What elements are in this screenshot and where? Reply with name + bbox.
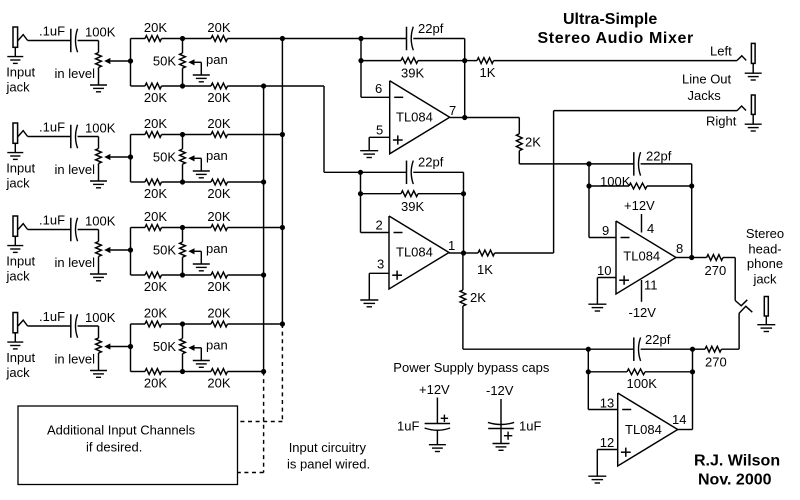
wire ch3 bottom to right bus [228, 274, 264, 276]
svg-text:2: 2 [376, 217, 383, 232]
svg-text:50K: 50K [153, 243, 176, 258]
stereo headphone jack [764, 297, 768, 325]
svg-text:270: 270 [705, 263, 727, 278]
wire C1 to level pot [78, 41, 99, 53]
feedback right vertical (U1d) [690, 347, 695, 430]
resistor 20K bottom-left (ch4) [145, 369, 162, 375]
label "20K" bottom-left (ch3) [144, 279, 167, 294]
right mix bus (vertical) [261, 83, 266, 374]
label ".1uF" (C1) [39, 24, 65, 39]
Right line-out jack [737, 95, 755, 124]
svg-text:1uF: 1uF [397, 419, 419, 434]
feedback wire 39K row (U1b) [361, 193, 464, 195]
svg-text:12: 12 [600, 435, 614, 450]
U1c input node vertical [586, 161, 591, 237]
pin 13 label (U1d) [600, 395, 614, 410]
ground (Left jack) [745, 73, 762, 80]
wire U1d inverting input [588, 409, 617, 411]
svg-text:Left: Left [710, 43, 732, 58]
wire ch2 bottom to right bus [228, 181, 264, 183]
wire pan wiper to ground (ch2) [195, 158, 202, 171]
svg-text:9: 9 [602, 223, 609, 238]
label "in level" (ch2) [55, 162, 96, 177]
svg-text:.1uF: .1uF [39, 213, 65, 228]
label "1uF" (-12V bypass) [519, 419, 541, 434]
ground (U1b pin 3) [360, 300, 378, 307]
pin 10 label (U1c) [597, 263, 611, 278]
resistor 270 (headphone left) [692, 255, 723, 261]
svg-text:Right: Right [706, 114, 737, 129]
svg-text:50K: 50K [153, 150, 176, 165]
wire 20K to pan top (ch3) [162, 225, 212, 230]
svg-text:20K: 20K [207, 116, 230, 131]
svg-text:20K: 20K [144, 306, 167, 321]
label "1K" (left out) [480, 65, 496, 80]
ground (in-level pot ch3) [90, 274, 107, 281]
potentiometer 100K in-level (ch3) [96, 242, 111, 257]
svg-text:22pf: 22pf [418, 21, 444, 36]
svg-text:jack: jack [752, 272, 777, 287]
svg-text:100K: 100K [85, 121, 116, 136]
svg-text:phone: phone [747, 256, 783, 271]
label "pan" (ch4) [206, 338, 228, 353]
potentiometer 100K in-level (ch1) [96, 53, 111, 68]
svg-text:jack: jack [6, 269, 31, 284]
label "Input circuitry is panel wired." [287, 440, 370, 471]
wire bottom row left (ch4) [131, 371, 146, 373]
label "50K" (ch2) [153, 150, 176, 165]
wire pot bottom to ground (ch2) [98, 164, 100, 182]
label "22pf" (U1d) [645, 332, 671, 347]
wire U1c output [676, 257, 692, 259]
svg-text:20K: 20K [207, 279, 230, 294]
resistor 20K top-left (ch4) [145, 321, 162, 327]
ground (input jack J4) [7, 342, 23, 349]
svg-text:Input circuitry: Input circuitry [289, 440, 367, 455]
wire 2K to U1c input [519, 151, 589, 164]
svg-text:5: 5 [376, 123, 383, 138]
svg-text:TL084: TL084 [396, 109, 433, 124]
feedback right vertical (U1c) [689, 164, 694, 260]
wire C5 to ground [436, 431, 438, 445]
svg-text:Line Out: Line Out [682, 72, 732, 87]
resistor 20K top-left (ch2) [145, 132, 162, 138]
svg-text:if desired.: if desired. [86, 440, 142, 455]
svg-text:20K: 20K [144, 186, 167, 201]
label "20K" bottom-right (ch3) [207, 279, 230, 294]
label "20K" top-right (ch2) [207, 116, 230, 131]
label "20K" top-left (ch1) [144, 20, 167, 35]
resistor 20K bottom-left (ch1) [145, 83, 162, 89]
resistor 100K (U1c feedback) [629, 183, 647, 189]
label "TL084" (U1c) [623, 248, 660, 263]
svg-text:13: 13 [600, 395, 614, 410]
svg-text:1K: 1K [480, 65, 496, 80]
wire ch4 top to left bus [228, 323, 283, 325]
wire 270 to headphone ring [721, 313, 739, 349]
svg-text:.1uF: .1uF [39, 120, 65, 135]
pin 4 label (U1c) [647, 221, 654, 236]
label "100K" (ch1) [85, 25, 116, 40]
wire U1b ground pin 3 [369, 273, 389, 300]
label "100K" (ch2) [85, 121, 116, 136]
wire U1b output to 2K [462, 253, 464, 290]
label "20K" top-left (ch4) [144, 306, 167, 321]
wire wiper to node (ch1) [110, 60, 130, 62]
input jack J2 [13, 123, 28, 153]
svg-text:Input: Input [6, 350, 35, 365]
label Input jack J4 [6, 350, 36, 380]
wire bottom row left (ch3) [131, 274, 146, 276]
additional channels box [18, 406, 238, 485]
wire pan wiper to ground (ch3) [195, 251, 202, 264]
left mix bus (vertical) [280, 36, 285, 327]
input jack J4 [13, 313, 28, 343]
wire top row left (ch2) [131, 134, 146, 136]
label "TL084" (U1d) [625, 422, 662, 437]
svg-text:-12V: -12V [629, 305, 657, 320]
ground (pan pot ch4) [193, 361, 210, 368]
label "20K" top-left (ch3) [144, 209, 167, 224]
svg-text:R.J. Wilson: R.J. Wilson [694, 453, 780, 470]
headphone tip contact [735, 300, 747, 306]
resistor 20K top-left (ch1) [145, 36, 162, 42]
svg-text:Input: Input [6, 254, 35, 269]
label "in level" (ch3) [55, 255, 96, 270]
label "1K" (right out) [477, 262, 493, 277]
U1b input node vertical [358, 170, 363, 233]
wire wiper to node (ch3) [110, 249, 130, 251]
op-amp U1c TL084 (pins 9,10,8) [616, 221, 676, 294]
label "+12V" (U1c pin 4) [624, 198, 655, 213]
svg-text:20K: 20K [207, 376, 230, 391]
svg-text:Input: Input [6, 65, 35, 80]
node split vertical (ch1) [128, 39, 133, 87]
wire top row left (ch1) [131, 38, 146, 40]
svg-text:20K: 20K [144, 376, 167, 391]
label "Right" [706, 114, 737, 129]
svg-text:270: 270 [705, 355, 727, 370]
svg-text:10: 10 [597, 263, 611, 278]
label "Power Supply bypass caps" [393, 360, 550, 375]
ground (U1a pin 5) [360, 151, 378, 158]
author credit [694, 453, 780, 489]
resistor 20K top-left (ch3) [145, 225, 162, 231]
wire U1d ground pin 12 [597, 450, 617, 477]
node split vertical (ch2) [128, 135, 133, 183]
resistor 1K (left out) [465, 58, 494, 64]
label Input jack J1 [6, 65, 36, 95]
svg-text:100K: 100K [627, 376, 658, 391]
label "20K" bottom-right (ch2) [207, 186, 230, 201]
label "50K" (ch1) [153, 54, 176, 69]
label "270" (headphone left) [705, 263, 727, 278]
svg-text:-12V: -12V [486, 383, 514, 398]
wire J3 to C3 [28, 229, 71, 231]
label "Left" [710, 43, 732, 58]
svg-text:4: 4 [647, 221, 654, 236]
wire C3 to level pot [78, 230, 99, 242]
svg-text:20K: 20K [207, 186, 230, 201]
resistor R 39K (U1a feedback) [401, 58, 418, 64]
label ".1uF" (C4) [39, 309, 65, 324]
label "2K" (U1a output) [525, 135, 541, 150]
svg-text:20K: 20K [207, 90, 230, 105]
wire U1a inverting input [361, 96, 390, 98]
wire J1 to C1 [28, 40, 71, 42]
svg-text:Ultra-Simple: Ultra-Simple [563, 11, 657, 28]
svg-text:2K: 2K [470, 290, 486, 305]
resistor 20K top-right (ch2) [211, 132, 228, 138]
ground (headphone jack) [757, 325, 775, 332]
wire 20K to pan bottom (ch1) [162, 83, 212, 88]
wire pan wiper to ground (ch1) [195, 62, 202, 75]
pan pot 50K (ch4) [180, 324, 195, 372]
svg-text:8: 8 [676, 241, 683, 256]
pan pot 50K (ch1) [180, 39, 195, 87]
wire 20K to pan bottom (ch4) [162, 369, 212, 374]
capacitor C2 .1uF [71, 125, 78, 149]
resistor 20K top-right (ch4) [211, 321, 228, 327]
resistor 20K bottom-right (ch2) [211, 179, 228, 185]
input jack J3 [13, 216, 28, 246]
label "+12V" (bypass) [419, 382, 450, 397]
wire pot bottom to ground (ch3) [98, 257, 100, 275]
svg-text:in level: in level [55, 66, 96, 81]
wire U1c ground pin 10 [597, 278, 616, 305]
feedback wire 22pf row (U1c) [589, 163, 692, 165]
input jack J1 [13, 27, 28, 57]
svg-text:jack: jack [6, 80, 31, 95]
svg-text:pan: pan [206, 338, 228, 353]
svg-text:50K: 50K [153, 339, 176, 354]
Left line-out jack [737, 43, 755, 73]
ground (pan pot ch1) [193, 75, 210, 82]
label "22pf" (U1c) [646, 148, 672, 163]
svg-text:6: 6 [375, 81, 382, 96]
dashed expansion wire from left bus [238, 324, 283, 422]
svg-text:20K: 20K [207, 20, 230, 35]
pan pot 50K (ch3) [180, 228, 195, 276]
capacitor C5 1uF (+12V bypass) [425, 415, 451, 431]
pin 5 label (U1a) [376, 123, 383, 138]
svg-text:Stereo Audio Mixer: Stereo Audio Mixer [538, 30, 694, 47]
wire ch3 top to left bus [228, 227, 283, 229]
resistor 1K (right out) [464, 250, 495, 256]
ground (input jack J2) [7, 153, 23, 160]
wire U1d output [678, 429, 693, 431]
svg-text:TL084: TL084 [396, 245, 433, 260]
wire J4 to C4 [28, 325, 71, 327]
label "20K" bottom-left (ch2) [144, 186, 167, 201]
label "50K" (ch3) [153, 243, 176, 258]
svg-text:Jacks: Jacks [688, 88, 722, 103]
svg-text:Additional Input Channels: Additional Input Channels [47, 422, 196, 437]
label "20K" bottom-left (ch1) [144, 90, 167, 105]
wire U1a output to 2K [465, 118, 520, 134]
label "22pf" (U1a) [418, 21, 444, 36]
ground (U1c pin 10) [588, 304, 606, 311]
ground (in-level pot ch2) [90, 181, 107, 188]
label "2K" (U1b output) [470, 290, 486, 305]
label "pan" (ch3) [206, 241, 228, 256]
wire 20K to pan bottom (ch2) [162, 179, 212, 184]
feedback right vertical (U1b) [461, 172, 466, 255]
label "20K" bottom-right (ch4) [207, 376, 230, 391]
svg-text:+12V: +12V [624, 198, 655, 213]
pin 6 label (U1a) [375, 81, 382, 96]
wire ch1 bottom row to right-bus corner [228, 85, 325, 87]
label "in level" (ch4) [55, 352, 96, 367]
svg-text:14: 14 [672, 412, 686, 427]
resistor 20K bottom-left (ch3) [145, 272, 162, 278]
feedback wire 100K row (U1d) [588, 371, 692, 373]
label "TL084" (U1a) [396, 109, 433, 124]
svg-text:20K: 20K [144, 279, 167, 294]
feedback wire 39K row (U1a) [361, 60, 465, 62]
svg-text:Power Supply bypass caps: Power Supply bypass caps [393, 360, 550, 375]
svg-text:TL084: TL084 [623, 248, 660, 263]
wire J2 to C2 [28, 136, 71, 138]
wire pot bottom to ground (ch4) [98, 353, 100, 371]
op-amp U1a TL084 (pins 6,5,7) [390, 81, 450, 154]
pin 3 label (U1b) [377, 257, 384, 272]
label "1uF" (+12V bypass) [397, 419, 419, 434]
label Input jack J2 [6, 161, 36, 191]
svg-text:22pf: 22pf [646, 148, 672, 163]
resistor 20K bottom-right (ch1) [211, 83, 228, 89]
capacitor 22pf (U1c feedback) [634, 152, 641, 176]
svg-text:head-: head- [748, 241, 781, 256]
wire to Right line-out jack [495, 111, 737, 253]
svg-text:TL084: TL084 [625, 422, 662, 437]
wire 20K to pan bottom (ch3) [162, 272, 212, 277]
wire -12V to C6 [500, 399, 502, 429]
label "100K" (ch4) [85, 310, 116, 325]
ground (Right jack) [745, 124, 762, 131]
wire to Left line-out jack [494, 60, 737, 62]
U1a input node vertical [358, 36, 363, 97]
svg-text:Nov. 2000: Nov. 2000 [698, 472, 772, 489]
pin 9 label (U1c) [602, 223, 609, 238]
wire pin 11 to -12V (U1c) [641, 280, 643, 302]
svg-text:100K: 100K [85, 25, 116, 40]
svg-text:11: 11 [644, 278, 658, 293]
label ".1uF" (C2) [39, 120, 65, 135]
wire wiper to node (ch2) [110, 156, 130, 158]
node split vertical (ch4) [128, 324, 133, 372]
feedback wire 100K row (U1c) [589, 185, 692, 187]
resistor 20K top-right (ch3) [211, 225, 228, 231]
wire pot bottom to ground (ch1) [98, 68, 100, 86]
svg-text:22pf: 22pf [645, 332, 671, 347]
potentiometer 100K in-level (ch2) [96, 149, 111, 164]
wire 20K to pan top (ch2) [162, 132, 212, 137]
svg-text:in level: in level [55, 162, 96, 177]
capacitor 22pf (U1b feedback) [407, 161, 414, 185]
ground (pan pot ch2) [193, 171, 210, 178]
svg-text:20K: 20K [144, 209, 167, 224]
feedback wire 22pf row (U1a) [361, 38, 465, 40]
label "50K" (ch4) [153, 339, 176, 354]
capacitor 22pf (U1d feedback) [634, 337, 641, 361]
wire top row left (ch3) [131, 227, 146, 229]
svg-text:pan: pan [206, 148, 228, 163]
wire C6 to ground [500, 429, 502, 444]
label "100K" (U1d) [627, 376, 658, 391]
resistor 20K bottom-left (ch2) [145, 179, 162, 185]
svg-text:Input: Input [6, 161, 35, 176]
label ".1uF" (C3) [39, 213, 65, 228]
pin 7 label (U1a) [449, 103, 456, 118]
label "Stereo head-phone jack" [746, 226, 784, 287]
label "in level" (ch1) [55, 66, 96, 81]
label "39K" (U1b) [401, 199, 424, 214]
label "100K" (ch3) [85, 214, 116, 229]
label "20K" top-right (ch3) [207, 209, 230, 224]
svg-text:.1uF: .1uF [39, 309, 65, 324]
label "-12V" (bypass) [486, 383, 514, 398]
wire U1b output [449, 252, 464, 254]
wire U1c inverting input [589, 237, 616, 239]
label "TL084" (U1b) [396, 245, 433, 260]
capacitor C4 .1uF [71, 314, 78, 338]
wire pan wiper to ground (ch4) [195, 348, 202, 361]
svg-text:3: 3 [377, 257, 384, 272]
svg-text:.1uF: .1uF [39, 24, 65, 39]
svg-text:7: 7 [449, 103, 456, 118]
svg-text:jack: jack [6, 365, 31, 380]
label "22pf" (U1b) [418, 155, 444, 170]
wire ch4 bottom to right bus [228, 371, 264, 373]
pan pot 50K (ch2) [180, 135, 195, 183]
label "20K" bottom-right (ch1) [207, 90, 230, 105]
label "pan" (ch1) [206, 52, 228, 67]
svg-text:50K: 50K [153, 54, 176, 69]
svg-text:+12V: +12V [419, 382, 450, 397]
svg-text:is panel wired.: is panel wired. [287, 456, 370, 471]
title [538, 11, 694, 47]
pin 2 label (U1b) [376, 217, 383, 232]
resistor 2K (U1b output) [460, 290, 466, 306]
label "Line Out" [682, 72, 732, 87]
svg-text:pan: pan [206, 241, 228, 256]
svg-text:jack: jack [6, 176, 31, 191]
svg-text:22pf: 22pf [418, 155, 444, 170]
label "20K" bottom-left (ch4) [144, 376, 167, 391]
resistor 20K bottom-right (ch3) [211, 272, 228, 278]
label "270" (headphone right) [705, 355, 727, 370]
svg-text:20K: 20K [144, 90, 167, 105]
svg-text:pan: pan [206, 52, 228, 67]
dashed expansion wire from right bus [238, 372, 264, 473]
pin 8 label (U1c) [676, 241, 683, 256]
pin 12 label (U1d) [600, 435, 614, 450]
svg-text:1uF: 1uF [519, 419, 541, 434]
resistor R 39K (U1b feedback) [401, 191, 418, 197]
ground (in-level pot ch1) [90, 85, 107, 92]
svg-text:1K: 1K [477, 262, 493, 277]
wire 20K to pan top (ch4) [162, 321, 212, 326]
pin 11 label (U1c) [644, 278, 658, 293]
ground (input jack J1) [7, 57, 23, 64]
wire +12V to pin 4 (U1c) [641, 214, 643, 233]
wire bottom row left (ch2) [131, 181, 146, 183]
wire 270 to headphone tip [723, 258, 735, 301]
wire +12V to C5 [436, 398, 438, 424]
ground (U1d pin 12) [588, 476, 606, 483]
pin 14 label (U1d) [672, 412, 686, 427]
